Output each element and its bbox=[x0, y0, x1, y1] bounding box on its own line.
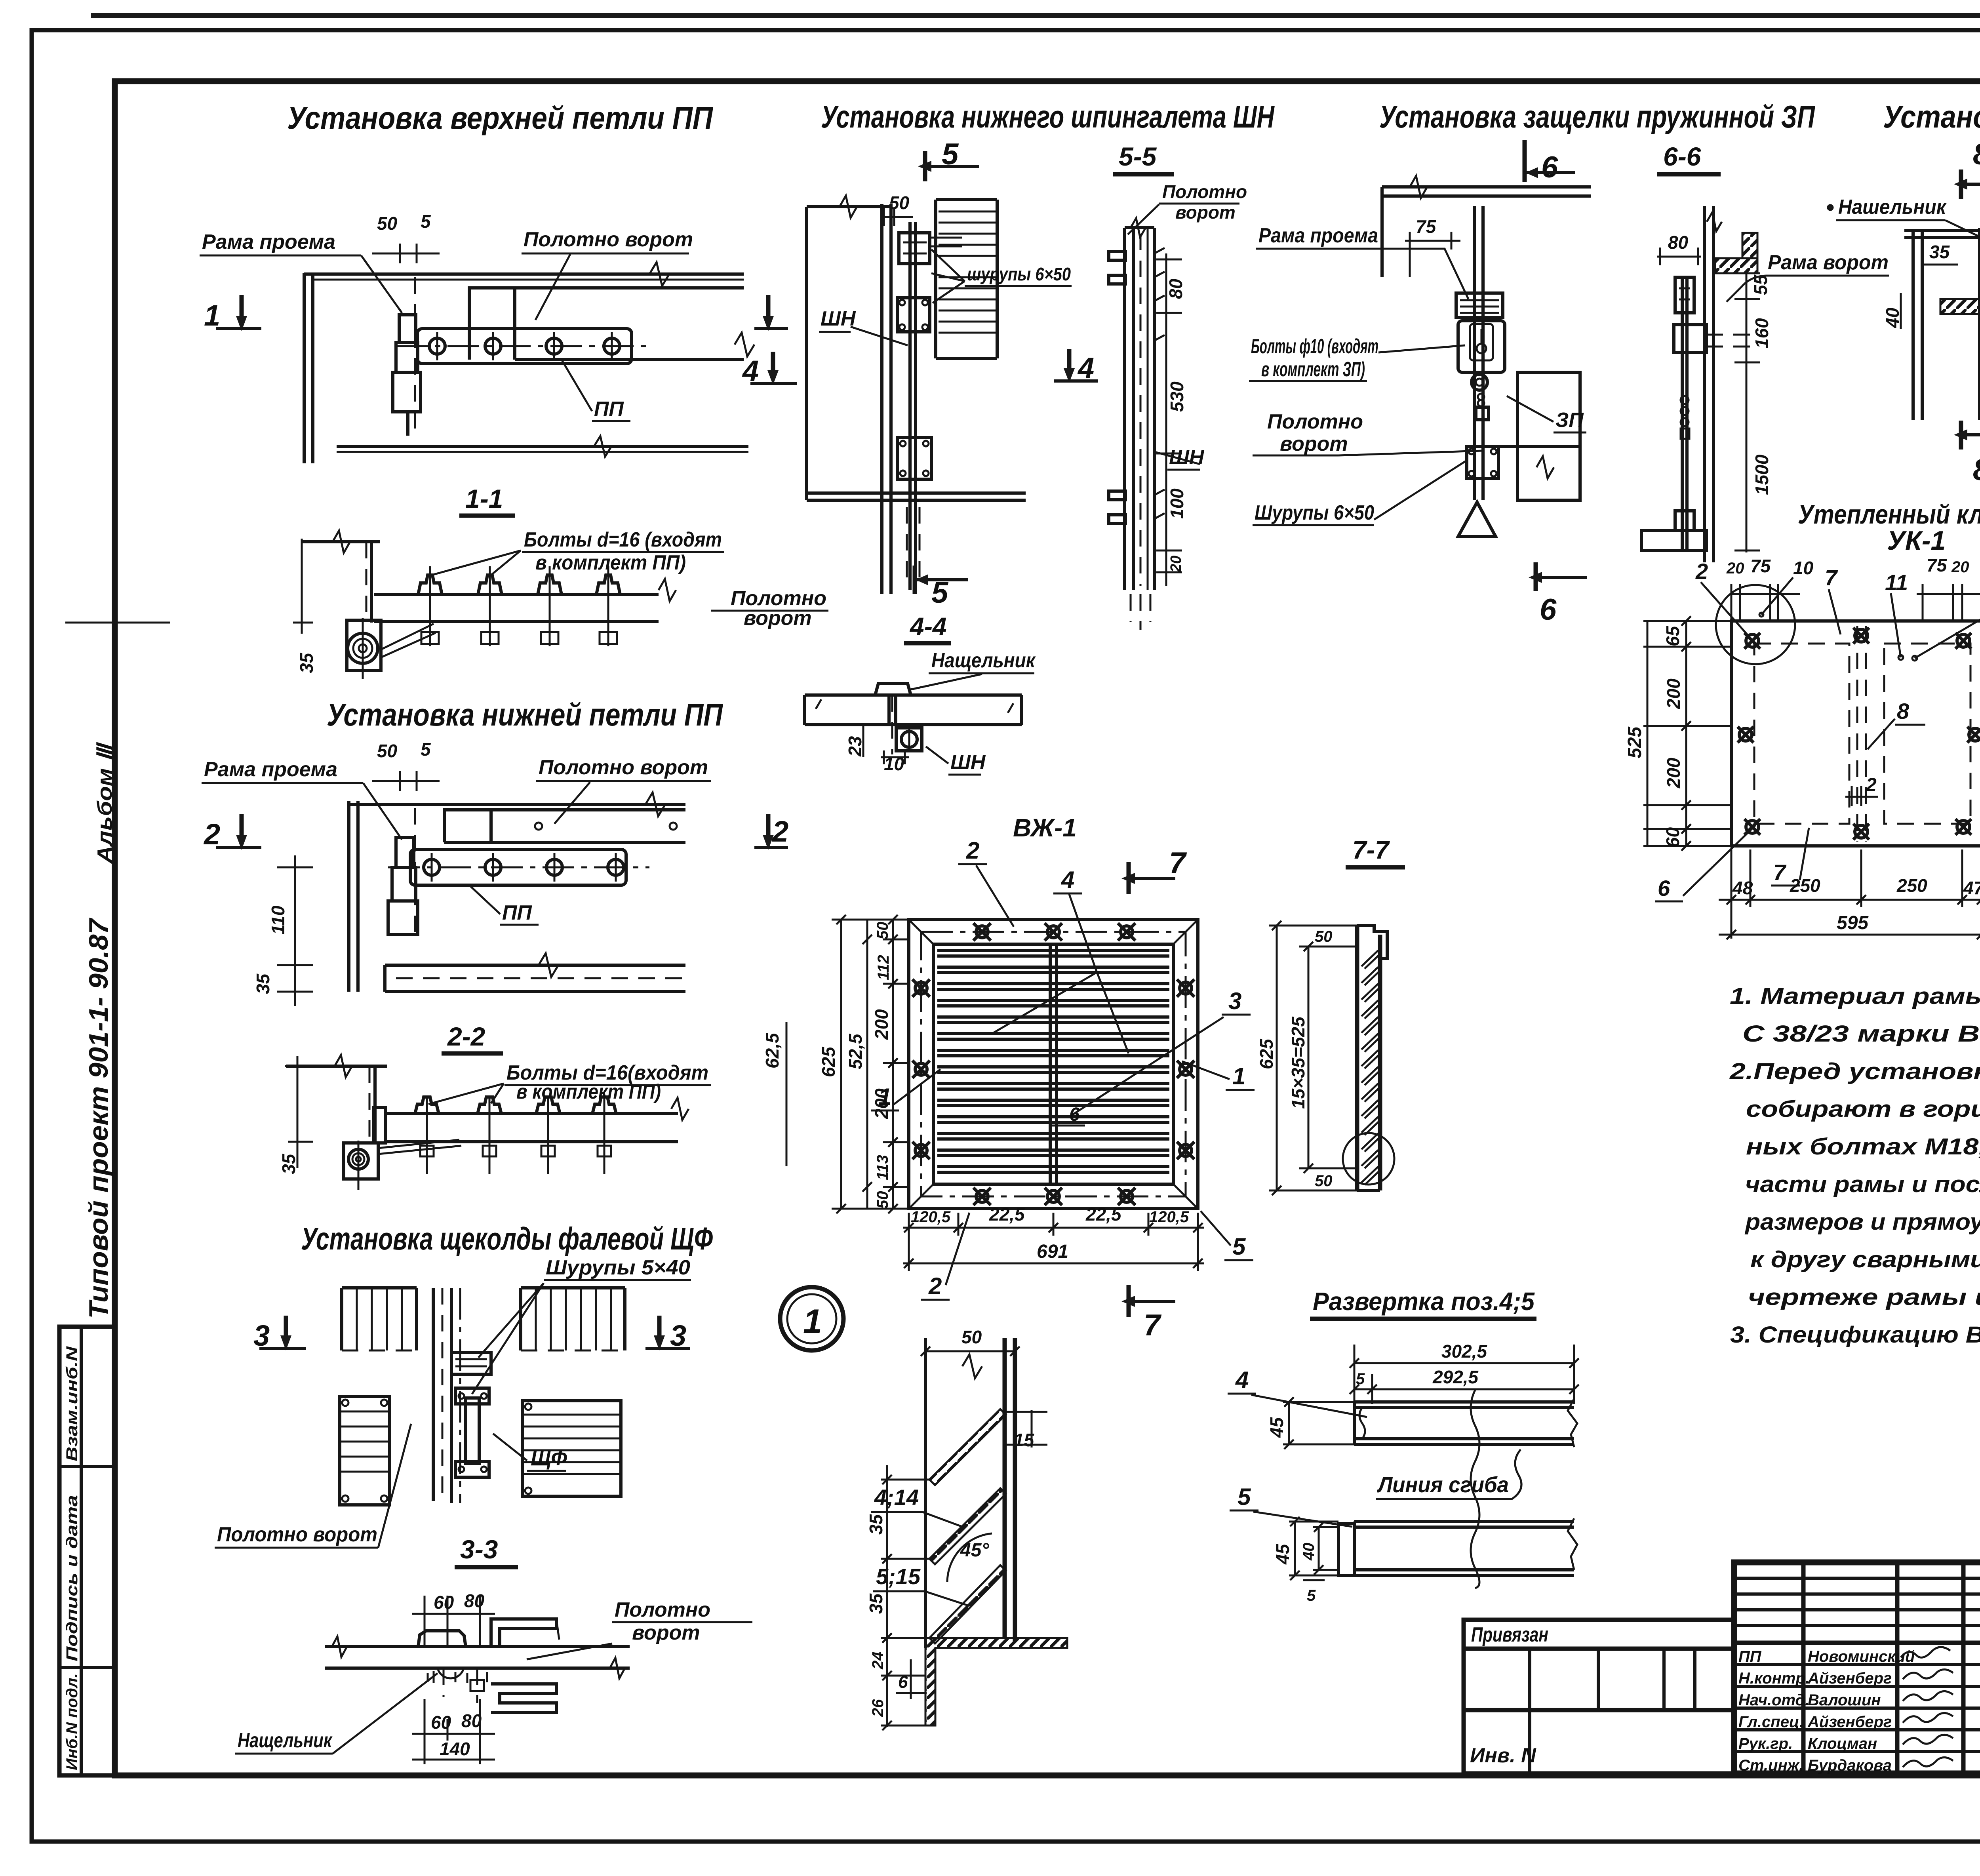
svg-text:45: 45 bbox=[1272, 1543, 1293, 1565]
svg-text:Валошин: Валошин bbox=[1808, 1691, 1881, 1709]
svg-text:80: 80 bbox=[461, 1710, 482, 1731]
svg-text:6: 6 bbox=[1069, 1104, 1080, 1125]
svg-text:4: 4 bbox=[1235, 1367, 1249, 1393]
svg-text:Взам.инб.N: Взам.инб.N bbox=[63, 1346, 81, 1461]
svg-text:35: 35 bbox=[278, 1153, 299, 1174]
svg-text:3. Спецификацию ВЖ-1 и УК-1: 3. Спецификацию ВЖ-1 и УК-1 см. лист 16. bbox=[1730, 1322, 1980, 1348]
svg-text:Привязан: Привязан bbox=[1471, 1623, 1548, 1646]
svg-text:250: 250 bbox=[1896, 875, 1927, 896]
svg-text:250: 250 bbox=[1790, 875, 1820, 896]
svg-text:6: 6 bbox=[1540, 593, 1557, 627]
svg-text:чертеже рамы шва считать h: чертеже рамы шва считать hш= 4мм. bbox=[1748, 1284, 1980, 1310]
svg-text:40: 40 bbox=[1300, 1543, 1317, 1561]
svg-text:6-6: 6-6 bbox=[1663, 142, 1702, 171]
svg-text:к другу сварными швами . Вс: к другу сварными швами . Все необозначен… bbox=[1750, 1247, 1980, 1272]
svg-text:15×35=525: 15×35=525 bbox=[1288, 1016, 1308, 1109]
svg-text:ВЖ-1: ВЖ-1 bbox=[1013, 813, 1077, 842]
svg-text:45: 45 bbox=[1266, 1417, 1287, 1438]
svg-text:292,5: 292,5 bbox=[1432, 1367, 1479, 1387]
svg-text:Нащельник: Нащельник bbox=[238, 1729, 333, 1752]
svg-text:7: 7 bbox=[1169, 846, 1187, 880]
svg-text:ЩФ: ЩФ bbox=[531, 1447, 567, 1470]
svg-text:Установка верхней петли ПП: Установка верхней петли ПП bbox=[287, 100, 713, 135]
svg-text:22,5: 22,5 bbox=[989, 1204, 1025, 1225]
svg-text:Новоминский: Новоминский bbox=[1808, 1648, 1915, 1665]
svg-text:8: 8 bbox=[1973, 137, 1980, 171]
svg-text:35: 35 bbox=[253, 973, 273, 994]
svg-text:120,5: 120,5 bbox=[911, 1208, 951, 1226]
svg-text:11: 11 bbox=[1885, 570, 1908, 595]
svg-text:Нащельник: Нащельник bbox=[931, 649, 1036, 672]
svg-text:Айзенберг: Айзенберг bbox=[1807, 1670, 1892, 1687]
svg-text:Установка пробоя Т90: Установка пробоя Т90 bbox=[1883, 99, 1980, 134]
svg-text:45°: 45° bbox=[960, 1540, 989, 1561]
svg-text:112: 112 bbox=[875, 955, 892, 980]
svg-text:5: 5 bbox=[421, 739, 431, 760]
svg-text:Нашельник: Нашельник bbox=[1838, 196, 1947, 219]
svg-text:в комплект ЗП): в комплект ЗП) bbox=[1261, 358, 1365, 381]
svg-text:625: 625 bbox=[818, 1046, 839, 1077]
svg-text:Установка щеколды фалевой ЩФ: Установка щеколды фалевой ЩФ bbox=[301, 1221, 713, 1256]
svg-text:Рама ворот: Рама ворот bbox=[1768, 251, 1889, 274]
svg-text:8: 8 bbox=[1973, 453, 1980, 487]
svg-text:ворот: ворот bbox=[1175, 202, 1236, 223]
svg-text:Рук.гр.: Рук.гр. bbox=[1738, 1735, 1793, 1752]
svg-text:4: 4 bbox=[1077, 352, 1094, 385]
svg-text:8: 8 bbox=[1897, 699, 1910, 724]
svg-text:7: 7 bbox=[1144, 1308, 1162, 1342]
svg-text:75: 75 bbox=[1927, 555, 1948, 575]
svg-text:Шурупы 5×40: Шурупы 5×40 bbox=[546, 1256, 690, 1279]
svg-text:110: 110 bbox=[268, 905, 288, 935]
svg-text:4;14: 4;14 bbox=[874, 1485, 919, 1510]
svg-text:24: 24 bbox=[869, 1652, 887, 1670]
svg-text:5: 5 bbox=[1237, 1484, 1251, 1510]
svg-text:ПП: ПП bbox=[502, 901, 532, 924]
svg-text:35: 35 bbox=[1929, 242, 1950, 262]
svg-text:собирают в горизонтальном пол: собирают в горизонтальном положении на м… bbox=[1746, 1096, 1980, 1122]
svg-text:1. Материал рамы РВЭ 1,90×2,7: 1. Материал рамы РВЭ 1,90×2,79 сталь кла… bbox=[1730, 983, 1980, 1009]
svg-text:Утепленный клапан: Утепленный клапан bbox=[1798, 499, 1980, 529]
svg-text:625: 625 bbox=[1256, 1038, 1277, 1069]
svg-text:7: 7 bbox=[1825, 565, 1838, 590]
svg-text:Болты ф10 (входят: Болты ф10 (входят bbox=[1251, 335, 1378, 358]
svg-text:5: 5 bbox=[421, 211, 431, 232]
svg-text:530: 530 bbox=[1167, 381, 1187, 412]
svg-text:3: 3 bbox=[1228, 988, 1241, 1014]
svg-text:120,5: 120,5 bbox=[1149, 1208, 1189, 1226]
svg-text:5: 5 bbox=[1307, 1587, 1316, 1604]
svg-text:80: 80 bbox=[464, 1590, 485, 1611]
svg-text:Рама проема: Рама проема bbox=[1258, 224, 1378, 247]
svg-text:5: 5 bbox=[1356, 1370, 1365, 1388]
svg-text:160: 160 bbox=[1752, 318, 1772, 349]
svg-text:50: 50 bbox=[1315, 928, 1333, 945]
svg-text:200: 200 bbox=[1663, 758, 1684, 788]
svg-text:525: 525 bbox=[1624, 726, 1645, 758]
svg-text:5;15: 5;15 bbox=[876, 1564, 921, 1589]
svg-text:Болты d=16 (входят: Болты d=16 (входят bbox=[524, 528, 722, 551]
svg-text:ПП: ПП bbox=[594, 398, 624, 421]
svg-text:50: 50 bbox=[874, 1191, 891, 1209]
svg-text:1-1: 1-1 bbox=[465, 484, 503, 513]
svg-text:Айзенберг: Айзенберг bbox=[1807, 1713, 1892, 1731]
svg-text:ШН: ШН bbox=[950, 751, 986, 774]
svg-text:Клоцман: Клоцман bbox=[1808, 1735, 1877, 1752]
svg-text:Нач.отд.: Нач.отд. bbox=[1738, 1691, 1809, 1709]
svg-text:1500: 1500 bbox=[1752, 454, 1772, 495]
svg-text:в комплект ПП): в комплект ПП) bbox=[516, 1080, 661, 1103]
svg-text:65: 65 bbox=[1662, 625, 1683, 646]
svg-text:4-4: 4-4 bbox=[909, 612, 947, 641]
svg-text:691: 691 bbox=[1037, 1241, 1068, 1262]
svg-text:1: 1 bbox=[803, 1303, 822, 1341]
svg-text:Полотно ворот: Полотно ворот bbox=[539, 756, 708, 779]
svg-text:Полотно ворот: Полотно ворот bbox=[524, 228, 693, 251]
svg-text:части рамы и после проверки: части рамы и после проверки правильности bbox=[1745, 1171, 1980, 1197]
svg-text:Развертка поз.4;5: Развертка поз.4;5 bbox=[1313, 1287, 1535, 1316]
svg-text:60: 60 bbox=[434, 1592, 454, 1613]
svg-text:52,5: 52,5 bbox=[845, 1033, 866, 1069]
svg-text:140: 140 bbox=[440, 1739, 470, 1759]
svg-text:3-3: 3-3 bbox=[460, 1535, 498, 1564]
svg-text:75: 75 bbox=[1416, 216, 1437, 237]
svg-text:в комплект ПП): в комплект ПП) bbox=[535, 551, 686, 574]
svg-text:Подпись и дата: Подпись и дата bbox=[63, 1495, 81, 1661]
svg-text:С 38/23 марки Вст3кп2 ГОСТ: С 38/23 марки Вст3кп2 ГОСТ 380-71*. bbox=[1742, 1021, 1980, 1047]
svg-text:шурупы 6×50: шурупы 6×50 bbox=[967, 264, 1071, 284]
svg-text:50: 50 bbox=[874, 922, 891, 940]
svg-text:6: 6 bbox=[1658, 876, 1670, 901]
svg-text:Установка нижней петли ПП: Установка нижней петли ПП bbox=[327, 697, 723, 732]
svg-text:1: 1 bbox=[204, 299, 220, 332]
svg-text:5: 5 bbox=[931, 576, 949, 609]
svg-text:1: 1 bbox=[878, 1084, 891, 1110]
svg-text:50: 50 bbox=[1315, 1172, 1333, 1190]
svg-text:Рама проема: Рама проема bbox=[202, 230, 335, 253]
svg-text:3: 3 bbox=[670, 1319, 686, 1352]
svg-text:2: 2 bbox=[771, 815, 788, 848]
svg-text:200: 200 bbox=[1663, 678, 1684, 709]
svg-text:50: 50 bbox=[377, 741, 398, 761]
svg-text:ПП: ПП bbox=[1738, 1648, 1762, 1665]
svg-text:2.Перед установкой рамы в про: 2.Перед установкой рамы в проем, элемент… bbox=[1729, 1059, 1980, 1084]
svg-text:2: 2 bbox=[1866, 775, 1877, 796]
svg-text:2-2: 2-2 bbox=[447, 1022, 485, 1051]
svg-text:302,5: 302,5 bbox=[1441, 1341, 1488, 1362]
svg-text:Ст.инж.: Ст.инж. bbox=[1738, 1757, 1803, 1774]
svg-text:Бурдакова: Бурдакова bbox=[1808, 1757, 1892, 1774]
svg-text:5: 5 bbox=[1232, 1233, 1246, 1260]
svg-text:Альбом Ⅲ: Альбом Ⅲ bbox=[93, 742, 116, 865]
svg-text:35: 35 bbox=[866, 1593, 886, 1614]
svg-text:35: 35 bbox=[866, 1514, 886, 1535]
svg-text:ЗП: ЗП bbox=[1555, 409, 1584, 432]
svg-text:Линия сгиба: Линия сгиба bbox=[1376, 1472, 1509, 1497]
svg-text:2: 2 bbox=[203, 818, 220, 851]
svg-text:6: 6 bbox=[898, 1672, 908, 1692]
svg-text:80: 80 bbox=[1668, 232, 1689, 253]
svg-text:Инб.N подл.: Инб.N подл. bbox=[63, 1673, 81, 1770]
svg-text:100: 100 bbox=[1167, 488, 1187, 519]
svg-text:6: 6 bbox=[1541, 150, 1558, 184]
svg-text:35: 35 bbox=[296, 652, 317, 673]
svg-text:Рама проема: Рама проема bbox=[204, 758, 337, 781]
svg-text:4: 4 bbox=[1061, 867, 1074, 893]
svg-text:60: 60 bbox=[1662, 827, 1683, 848]
svg-text:Полотно: Полотно bbox=[1162, 181, 1247, 202]
svg-text:УК-1: УК-1 bbox=[1887, 526, 1946, 556]
svg-text:ворот: ворот bbox=[632, 1621, 700, 1644]
svg-text:1: 1 bbox=[1232, 1063, 1245, 1089]
svg-text:Гл.спец.: Гл.спец. bbox=[1738, 1713, 1804, 1731]
svg-text:595: 595 bbox=[1837, 912, 1869, 933]
svg-text:22,5: 22,5 bbox=[1085, 1204, 1122, 1225]
svg-text:47: 47 bbox=[1963, 878, 1980, 898]
svg-text:75: 75 bbox=[1750, 556, 1771, 576]
svg-text:80: 80 bbox=[1165, 278, 1186, 299]
svg-text:ных болтах М18, временно ра: ных болтах М18, временно раскрепляют в н… bbox=[1746, 1134, 1980, 1160]
svg-text:7-7: 7-7 bbox=[1352, 836, 1390, 864]
svg-text:20: 20 bbox=[1951, 558, 1969, 576]
svg-text:Н.контр.: Н.контр. bbox=[1738, 1670, 1810, 1687]
svg-text:Установка нижнего шпингалета Ш: Установка нижнего шпингалета ШН bbox=[821, 99, 1275, 134]
svg-text:48: 48 bbox=[1732, 878, 1753, 898]
svg-text:2: 2 bbox=[928, 1273, 942, 1299]
svg-text:200: 200 bbox=[871, 1009, 892, 1040]
svg-text:Установка защелки пружинной ЗП: Установка защелки пружинной ЗП bbox=[1379, 99, 1815, 134]
svg-text:Типовой проект 901-1- 90.87: Типовой проект 901-1- 90.87 bbox=[84, 918, 114, 1319]
svg-text:113: 113 bbox=[874, 1155, 891, 1180]
svg-text:10: 10 bbox=[1793, 558, 1814, 578]
svg-text:20: 20 bbox=[1726, 560, 1744, 577]
svg-text:Полотно: Полотно bbox=[1267, 410, 1363, 433]
svg-text:26: 26 bbox=[869, 1699, 887, 1717]
svg-text:Полотно ворот: Полотно ворот bbox=[217, 1523, 377, 1546]
svg-text:Полотно: Полотно bbox=[615, 1598, 710, 1621]
svg-text:5-5: 5-5 bbox=[1119, 142, 1157, 171]
svg-text:23: 23 bbox=[845, 736, 865, 757]
svg-text:40: 40 bbox=[1882, 307, 1903, 328]
svg-text:2: 2 bbox=[966, 837, 979, 864]
svg-text:20: 20 bbox=[1168, 556, 1184, 573]
svg-text:ворот: ворот bbox=[1280, 432, 1348, 455]
svg-text:Шурупы 6×50: Шурупы 6×50 bbox=[1255, 501, 1374, 524]
svg-text:62,5: 62,5 bbox=[762, 1032, 782, 1068]
svg-text:7: 7 bbox=[1773, 860, 1787, 885]
svg-text:2: 2 bbox=[1695, 559, 1708, 584]
svg-text:размеров и прямоугольности р: размеров и прямоугольности рамы, привари… bbox=[1744, 1209, 1980, 1235]
svg-text:Инв. N: Инв. N bbox=[1470, 1744, 1536, 1767]
svg-text:50: 50 bbox=[377, 213, 398, 234]
svg-text:50: 50 bbox=[961, 1327, 982, 1347]
